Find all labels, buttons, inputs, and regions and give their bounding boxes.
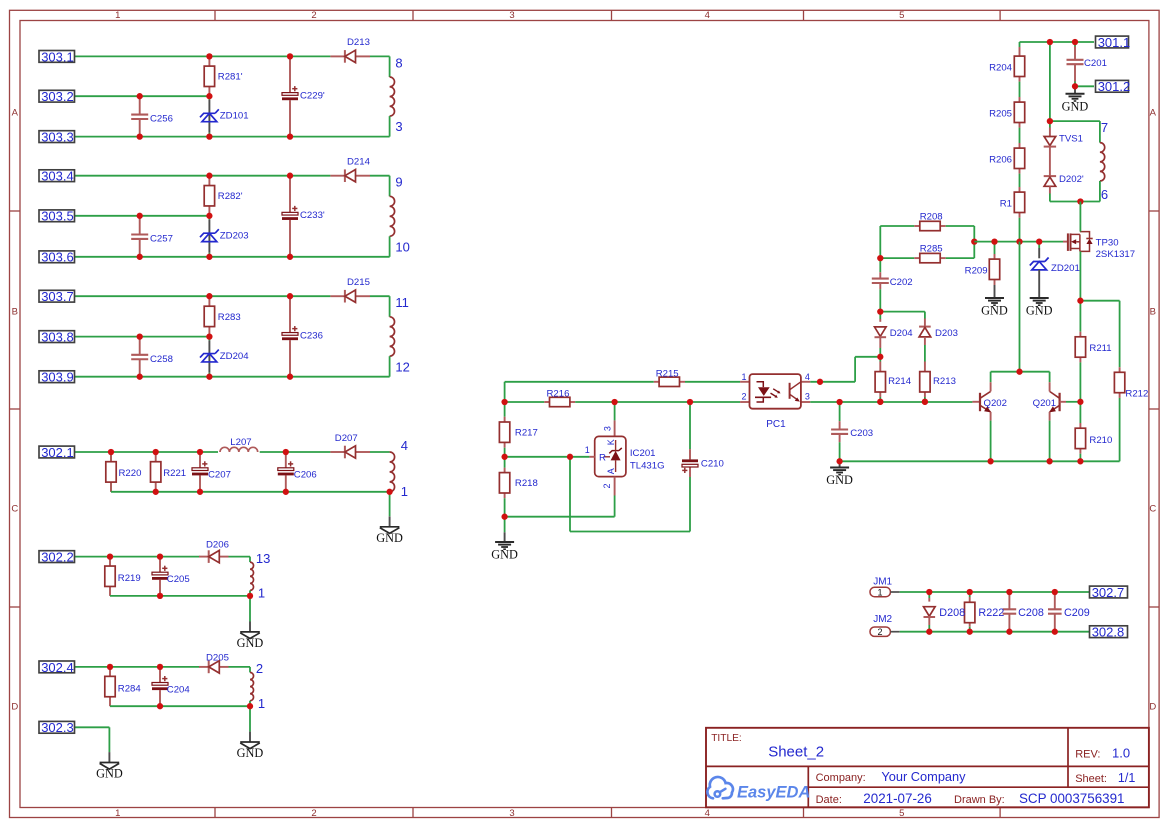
svg-text:3: 3	[509, 808, 514, 819]
svg-text:C229': C229'	[300, 90, 325, 101]
svg-text:R222: R222	[978, 607, 1004, 619]
svg-text:R212: R212	[1125, 388, 1148, 399]
svg-text:GND: GND	[376, 531, 403, 545]
svg-text:D213: D213	[347, 37, 370, 48]
svg-text:R214: R214	[888, 376, 912, 387]
svg-text:2: 2	[311, 808, 316, 819]
svg-text:13: 13	[256, 551, 270, 566]
svg-text:D204: D204	[890, 328, 914, 339]
svg-text:L207: L207	[230, 437, 251, 448]
svg-text:302.4: 302.4	[41, 660, 74, 675]
svg-text:C: C	[1149, 504, 1156, 515]
svg-text:D215: D215	[347, 277, 370, 288]
svg-text:1: 1	[877, 587, 882, 597]
svg-text:1: 1	[258, 696, 265, 711]
svg-text:R283: R283	[218, 312, 241, 323]
svg-text:GND: GND	[491, 548, 518, 562]
svg-text:ZD204: ZD204	[220, 351, 249, 362]
svg-text:C: C	[11, 504, 18, 515]
svg-text:C209: C209	[1064, 607, 1090, 619]
svg-text:2: 2	[311, 10, 316, 21]
svg-text:2: 2	[602, 483, 612, 488]
svg-text:JM2: JM2	[873, 614, 892, 625]
svg-text:R216: R216	[547, 389, 570, 400]
svg-text:R220: R220	[119, 468, 142, 479]
svg-text:REV:: REV:	[1075, 749, 1100, 761]
svg-text:R205: R205	[989, 108, 1012, 119]
svg-text:C205: C205	[167, 574, 190, 585]
svg-text:R210: R210	[1089, 435, 1112, 446]
svg-text:D214: D214	[347, 156, 371, 167]
svg-text:D205: D205	[206, 653, 229, 664]
svg-text:4: 4	[401, 438, 408, 453]
svg-text:D207: D207	[335, 433, 358, 444]
svg-text:D206: D206	[206, 540, 229, 551]
svg-text:302.7: 302.7	[1092, 585, 1125, 600]
svg-text:1: 1	[401, 484, 408, 499]
svg-text:R282': R282'	[218, 191, 243, 202]
svg-text:GND: GND	[1026, 304, 1053, 318]
svg-text:C233': C233'	[300, 210, 325, 221]
svg-text:R281': R281'	[218, 72, 243, 83]
svg-text:2SK1317: 2SK1317	[1096, 249, 1135, 260]
svg-text:Date:: Date:	[816, 794, 842, 806]
svg-text:GND: GND	[826, 473, 853, 487]
svg-text:R217: R217	[515, 427, 538, 438]
svg-text:TP30: TP30	[1096, 238, 1119, 249]
svg-text:C210: C210	[701, 459, 724, 470]
svg-text:7: 7	[1101, 120, 1108, 135]
svg-text:C204: C204	[167, 684, 191, 695]
svg-text:2: 2	[741, 392, 746, 402]
svg-text:9: 9	[395, 175, 402, 190]
svg-text:ZD101: ZD101	[220, 111, 249, 122]
svg-text:R215: R215	[656, 369, 679, 380]
svg-text:C201: C201	[1084, 58, 1107, 69]
svg-text:Sheet:: Sheet:	[1075, 773, 1107, 785]
svg-text:C202: C202	[890, 277, 913, 288]
svg-text:10: 10	[395, 239, 409, 254]
svg-text:GND: GND	[1062, 99, 1089, 113]
svg-text:11: 11	[395, 295, 409, 310]
svg-text:GND: GND	[237, 746, 264, 760]
svg-text:5: 5	[899, 10, 904, 21]
svg-text:Company:: Company:	[816, 772, 866, 784]
svg-text:R284: R284	[118, 683, 142, 694]
svg-text:A: A	[1150, 108, 1157, 119]
svg-text:Q201: Q201	[1033, 398, 1056, 409]
svg-text:GND: GND	[96, 767, 123, 781]
svg-text:303.2: 303.2	[41, 89, 74, 104]
svg-text:R208: R208	[920, 212, 943, 223]
svg-text:303.4: 303.4	[41, 169, 74, 184]
svg-text:C207: C207	[208, 469, 231, 480]
svg-text:1/1: 1/1	[1118, 771, 1135, 785]
svg-text:B: B	[1150, 307, 1156, 318]
svg-text:EasyEDA: EasyEDA	[737, 784, 810, 802]
svg-text:D208: D208	[939, 607, 965, 619]
svg-text:C206: C206	[294, 469, 317, 480]
svg-text:Drawn By:: Drawn By:	[954, 794, 1005, 806]
svg-text:D202': D202'	[1059, 174, 1084, 185]
svg-text:ZD203: ZD203	[220, 231, 249, 242]
svg-text:C203: C203	[850, 428, 873, 439]
svg-text:D: D	[1149, 702, 1156, 713]
svg-text:1.0: 1.0	[1112, 746, 1130, 761]
svg-text:303.8: 303.8	[41, 330, 74, 345]
svg-text:303.9: 303.9	[41, 370, 74, 385]
svg-text:C258: C258	[150, 354, 173, 365]
svg-text:3: 3	[395, 119, 402, 134]
svg-text:1: 1	[115, 10, 120, 21]
svg-text:TL431G: TL431G	[630, 460, 665, 471]
svg-text:303.6: 303.6	[41, 250, 74, 265]
svg-text:3: 3	[805, 392, 810, 402]
svg-text:R204: R204	[989, 62, 1013, 73]
svg-text:R218: R218	[515, 478, 538, 489]
svg-text:3: 3	[509, 10, 514, 21]
svg-text:PC1: PC1	[766, 419, 786, 430]
svg-text:302.1: 302.1	[41, 445, 74, 460]
svg-text:303.3: 303.3	[41, 130, 74, 145]
svg-text:Your Company: Your Company	[881, 769, 966, 784]
svg-text:R1: R1	[1000, 198, 1012, 209]
svg-text:1: 1	[115, 808, 120, 819]
svg-text:12: 12	[395, 359, 409, 374]
svg-text:C208: C208	[1018, 607, 1044, 619]
svg-text:303.7: 303.7	[41, 289, 74, 304]
svg-text:C257: C257	[150, 234, 173, 245]
svg-text:303.1: 303.1	[41, 49, 74, 64]
svg-text:Q202: Q202	[984, 398, 1007, 409]
svg-text:R206: R206	[989, 154, 1012, 165]
svg-text:R285: R285	[920, 244, 943, 255]
svg-text:302.3: 302.3	[41, 720, 74, 735]
svg-text:JM1: JM1	[873, 577, 892, 588]
svg-text:303.5: 303.5	[41, 209, 74, 224]
svg-text:R213: R213	[933, 376, 956, 387]
svg-text:5: 5	[899, 808, 904, 819]
svg-text:8: 8	[395, 55, 402, 70]
svg-text:C256: C256	[150, 114, 173, 125]
svg-text:C236: C236	[300, 330, 323, 341]
svg-text:ZD201: ZD201	[1051, 263, 1080, 274]
svg-text:R209: R209	[965, 266, 988, 277]
svg-text:D203: D203	[935, 328, 958, 339]
svg-text:B: B	[12, 307, 18, 318]
svg-text:6: 6	[1101, 187, 1108, 202]
svg-text:R: R	[599, 452, 606, 463]
svg-text:4: 4	[805, 372, 810, 382]
svg-text:2: 2	[256, 661, 263, 676]
svg-text:Sheet_2: Sheet_2	[768, 744, 824, 761]
svg-text:4: 4	[705, 10, 710, 21]
svg-text:A: A	[606, 468, 616, 474]
svg-text:R221: R221	[163, 468, 186, 479]
svg-text:1: 1	[585, 445, 590, 455]
svg-text:A: A	[12, 108, 19, 119]
svg-text:TITLE:: TITLE:	[711, 733, 742, 744]
svg-text:302.2: 302.2	[41, 550, 74, 565]
svg-text:4: 4	[705, 808, 710, 819]
svg-text:SCP 0003756391: SCP 0003756391	[1019, 791, 1124, 806]
svg-text:TVS1: TVS1	[1059, 134, 1083, 145]
svg-text:IC201: IC201	[630, 448, 656, 459]
svg-text:R211: R211	[1089, 343, 1111, 354]
svg-text:GND: GND	[237, 636, 264, 650]
svg-text:3: 3	[603, 426, 613, 431]
svg-text:301.2: 301.2	[1098, 79, 1131, 94]
svg-text:2: 2	[877, 627, 882, 637]
svg-text:K: K	[606, 439, 616, 445]
svg-text:1: 1	[741, 372, 746, 382]
svg-text:1: 1	[258, 586, 265, 601]
svg-text:2021-07-26: 2021-07-26	[863, 791, 932, 806]
svg-text:GND: GND	[981, 304, 1008, 318]
svg-text:R219: R219	[118, 573, 141, 584]
svg-text:D: D	[11, 702, 18, 713]
svg-text:302.8: 302.8	[1092, 625, 1125, 640]
svg-text:301.1: 301.1	[1098, 35, 1131, 50]
